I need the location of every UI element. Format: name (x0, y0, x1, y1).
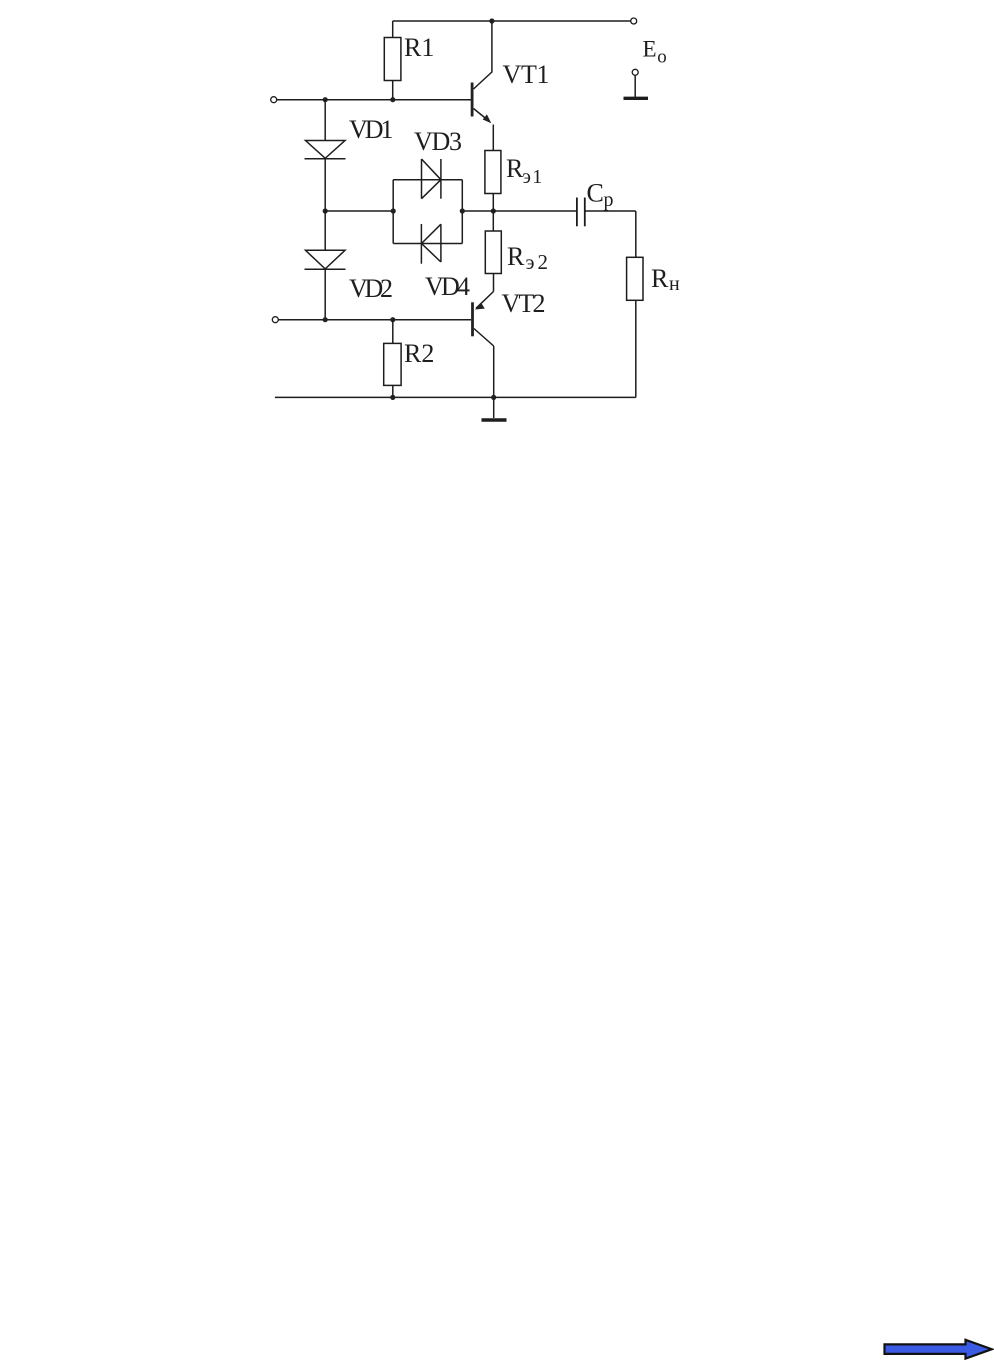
diode VD2 (305, 211, 346, 320)
transistor VT1 (471, 72, 492, 123)
svg-text:р: р (604, 189, 614, 211)
wire middle rail left (325, 210, 393, 212)
svg-text:VD2: VD2 (349, 274, 393, 303)
wire middle node to Re2 (492, 211, 494, 231)
wire middle rail center (462, 210, 577, 212)
resistor Re1 (485, 151, 501, 194)
terminal input upper (271, 97, 277, 103)
svg-text:E: E (643, 36, 657, 61)
svg-text:R: R (507, 242, 525, 271)
terminal +Eo top right (631, 18, 637, 24)
label Cp (587, 179, 614, 212)
blue arrow bottom right (885, 1340, 992, 1359)
wire middle rail right of capacitor (585, 210, 636, 212)
terminal input lower (272, 317, 278, 323)
svg-text:о: о (657, 46, 667, 67)
node R1 bottom (390, 97, 395, 102)
node box left (391, 208, 396, 213)
resistor Rn (627, 257, 643, 300)
wire Re2 to VT2 emitter (493, 274, 495, 292)
wire Re1 to middle node (492, 194, 494, 212)
node R2 bottom (390, 395, 395, 400)
node VD1 VD2 junction (323, 208, 328, 213)
diode VD4 (393, 224, 462, 264)
wire load branch bottom (635, 300, 637, 397)
resistor R1 (384, 21, 401, 100)
node box right (460, 208, 465, 213)
label Re1 (506, 154, 542, 188)
svg-text:C: C (587, 179, 604, 208)
label Eo (643, 36, 667, 67)
svg-text:VD3: VD3 (414, 127, 462, 156)
svg-text:R: R (506, 154, 524, 183)
node VT2 collector bottom (491, 395, 496, 400)
svg-text:VD4: VD4 (425, 272, 470, 301)
wire VT2 collector vertical (493, 346, 495, 397)
wire lower input rail (278, 319, 471, 321)
node collector junction top (489, 18, 494, 23)
label Re2 (507, 242, 548, 274)
wire diode box right vertical (461, 180, 463, 244)
resistor Re2 (485, 231, 501, 274)
node VD1 top (323, 97, 328, 102)
svg-text:R2: R2 (404, 339, 434, 368)
svg-text:э1: э1 (522, 166, 542, 188)
node R2 top (390, 317, 395, 322)
resistor R2 (384, 320, 401, 398)
node VD2 bottom (323, 317, 328, 322)
node emitter junction middle (491, 208, 496, 213)
wire top rail (393, 20, 631, 22)
wire upper input rail (277, 99, 471, 101)
svg-text:R: R (651, 264, 669, 293)
svg-text:э2: э2 (526, 250, 549, 274)
wire bottom rail (275, 396, 636, 398)
svg-text:VT1: VT1 (503, 60, 550, 89)
transistor VT2 (471, 292, 494, 347)
wire load branch top (635, 211, 637, 257)
svg-text:VD1: VD1 (349, 115, 394, 144)
capacitor Cp (577, 198, 585, 227)
ground bottom center (482, 397, 507, 420)
label Rn (651, 264, 680, 295)
svg-text:н: н (669, 273, 680, 295)
wire VT1 collector vertical (491, 21, 493, 73)
diode VD3 (393, 159, 462, 199)
svg-text:R1: R1 (404, 33, 434, 62)
wire VT1 emitter to R_e1 (492, 125, 494, 151)
diode VD1 (305, 100, 346, 211)
wire diode box left vertical (392, 180, 394, 244)
svg-text:VT2: VT2 (502, 289, 546, 318)
ground Eo reference (624, 69, 649, 98)
